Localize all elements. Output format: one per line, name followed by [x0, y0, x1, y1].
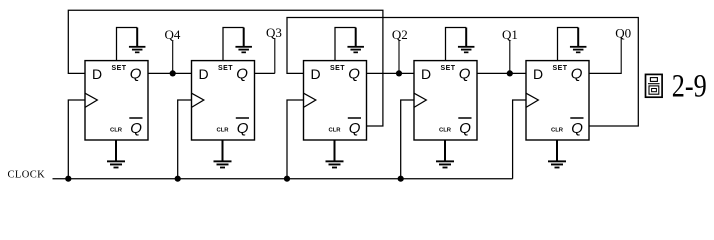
ground symbol below U3 (CLR)	[326, 160, 344, 168]
svg-text:2-9: 2-9	[672, 69, 707, 105]
svg-text:Q0: Q0	[615, 25, 631, 40]
ground symbol below U2 (CLR)	[214, 160, 232, 168]
wire SET pin U2 to ground	[223, 28, 244, 61]
svg-text:Q: Q	[571, 120, 583, 137]
svg-text:Q4: Q4	[165, 27, 181, 42]
net label CLOCK	[8, 169, 46, 180]
wire U4 Q to U5 D	[477, 72, 526, 74]
wire CLR pin U2 to ground	[222, 140, 224, 161]
svg-text:Q: Q	[571, 65, 583, 82]
node Q4 junction dot	[170, 70, 176, 76]
svg-text:CLR: CLR	[110, 127, 123, 133]
ground symbol above U5 (SET)	[570, 46, 587, 53]
svg-text:CLR: CLR	[216, 127, 229, 133]
caption text 2-9	[672, 69, 707, 105]
svg-text:SET: SET	[111, 65, 126, 72]
wire feedback loop2 from U5 Qbar to U3 D	[287, 18, 638, 127]
clock junction dot U1	[65, 176, 71, 182]
ground symbol above U4 (SET)	[458, 46, 475, 53]
ground symbol above U2 (SET)	[235, 46, 252, 53]
svg-text:SET: SET	[218, 65, 233, 72]
wire SET pin U5 to ground	[558, 28, 579, 61]
svg-text:D: D	[199, 66, 209, 82]
svg-text:Q: Q	[237, 120, 249, 137]
wire node Q1 stub	[509, 41, 511, 74]
svg-text:D: D	[311, 66, 321, 82]
ground symbol above U3 (SET)	[347, 46, 364, 53]
D flip-flop U4	[414, 61, 477, 140]
wire U3 Q to U4 D	[367, 72, 415, 74]
wire SET pin U3 to ground	[335, 28, 356, 61]
svg-text:CLR: CLR	[328, 127, 341, 133]
wire U1 Q to U2 D	[148, 72, 192, 74]
ground symbol above U1 (SET)	[129, 46, 146, 53]
ground symbol below U4 (CLR)	[436, 160, 454, 168]
wire CLR pin U3 to ground	[334, 140, 336, 161]
node label Q4	[165, 27, 181, 42]
wire CLR pin U4 to ground	[444, 140, 446, 161]
svg-text:Q3: Q3	[266, 25, 282, 40]
wire U2 Q to node Q3	[255, 72, 275, 74]
node Q1 junction dot	[507, 70, 513, 76]
node label Q3	[266, 25, 282, 40]
wire clock riser to U2	[178, 100, 192, 179]
wire node Q2 stub	[398, 40, 400, 73]
svg-text:CLOCK: CLOCK	[8, 169, 46, 180]
node Q2 junction dot	[396, 70, 402, 76]
D flip-flop U2	[192, 61, 255, 140]
wire CLR pin U1 to ground	[115, 140, 117, 161]
svg-text:SET: SET	[330, 65, 345, 72]
ground symbol below U5 (CLR)	[548, 160, 566, 168]
svg-text:D: D	[421, 66, 431, 82]
svg-text:CLR: CLR	[439, 127, 452, 133]
clock junction dot U4	[398, 176, 404, 182]
wire feedback loop1 from U3 Qbar to U1 D	[68, 10, 383, 126]
svg-text:Q: Q	[236, 65, 248, 82]
svg-text:SET: SET	[440, 65, 455, 72]
wire clock riser to U4	[401, 100, 414, 179]
wire SET pin U1 to ground	[117, 28, 138, 61]
wire node Q4 stub	[172, 41, 174, 74]
wire clock riser to U1	[68, 100, 85, 179]
svg-text:Q1: Q1	[502, 27, 518, 42]
ground symbol below U1 (CLR)	[107, 160, 125, 168]
svg-text:Q: Q	[130, 65, 142, 82]
wire clock riser to U5	[513, 100, 526, 179]
svg-text:Q: Q	[459, 65, 471, 82]
svg-text:CLR: CLR	[551, 127, 564, 133]
D flip-flop U5	[526, 61, 589, 140]
wire CLOCK bus	[53, 178, 513, 180]
node label Q0	[615, 25, 631, 40]
wire CLR pin U5 to ground	[556, 140, 558, 161]
wire SET pin U4 to ground	[446, 28, 467, 61]
svg-text:Q: Q	[349, 120, 361, 137]
svg-text:D: D	[92, 66, 102, 82]
wire node Q3 stub	[274, 38, 276, 73]
wire node Q0 stub	[620, 38, 622, 75]
D flip-flop U3	[304, 61, 367, 140]
svg-text:Q: Q	[130, 120, 142, 137]
svg-text:Q2: Q2	[392, 27, 408, 42]
clock junction dot U3	[284, 176, 290, 182]
svg-text:Q: Q	[348, 65, 360, 82]
svg-text:D: D	[533, 66, 543, 82]
node label Q1	[502, 27, 518, 42]
clock junction dot U2	[175, 176, 181, 182]
node label Q2	[392, 27, 408, 42]
wire U5 Q to node Q0	[589, 72, 621, 74]
svg-text:Q: Q	[459, 120, 471, 137]
wire clock riser to U3	[287, 100, 304, 179]
D flip-flop U1	[85, 61, 148, 140]
svg-text:SET: SET	[552, 65, 567, 72]
caption character 圖 (drawn)	[646, 74, 663, 97]
